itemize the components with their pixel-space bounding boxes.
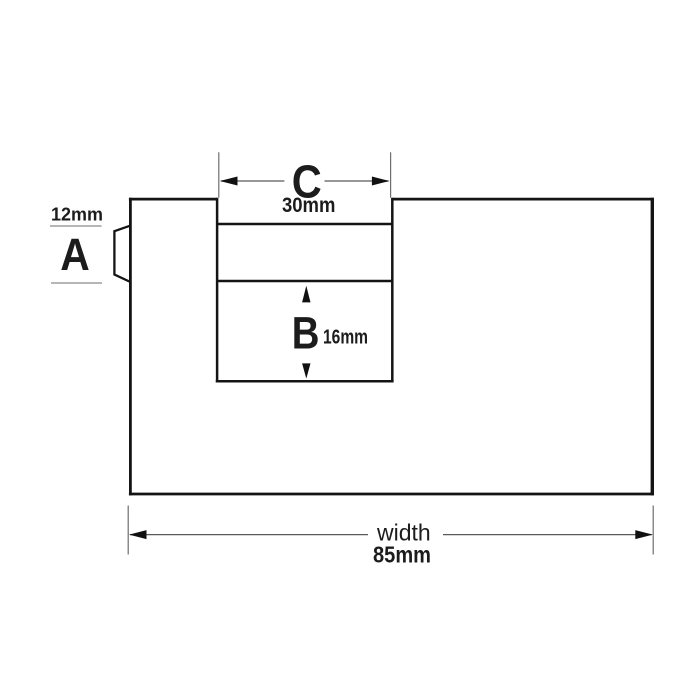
padlock body left edge	[129, 198, 132, 496]
dim width extension line left	[127, 506, 129, 555]
dim C arrowhead right	[372, 177, 390, 186]
svg-text:12mm: 12mm	[51, 204, 103, 225]
svg-text:30mm: 30mm	[282, 194, 335, 217]
dim C extension line right	[390, 152, 392, 197]
shackle notch left vertical	[216, 198, 219, 383]
padlock body outline (left top segment)	[129, 198, 217, 201]
shackle notch right vertical	[391, 198, 394, 383]
shackle notch bottom line	[216, 380, 394, 383]
svg-text:B: B	[292, 308, 320, 359]
dim B arrowhead down	[302, 363, 310, 378]
padlock body right edge	[651, 198, 654, 496]
dim C line right segment	[325, 180, 389, 182]
shackle bar bottom line	[217, 280, 392, 283]
dim C arrowhead left	[220, 177, 238, 186]
dim width extension line right	[652, 506, 654, 555]
dim C extension line left	[218, 152, 220, 197]
dim width line left segment	[130, 534, 368, 536]
shackle bar top line	[217, 223, 392, 226]
svg-text:85mm: 85mm	[373, 542, 431, 568]
svg-text:16mm: 16mm	[323, 327, 368, 349]
side tab trapezoid	[114, 226, 130, 282]
dim width line right segment	[443, 534, 652, 536]
svg-text:A: A	[60, 229, 90, 280]
padlock body outline (right top segment)	[392, 198, 654, 201]
padlock body bottom edge	[129, 493, 654, 496]
dim A lower line	[51, 282, 102, 284]
dim width arrowhead left	[129, 530, 147, 539]
dim width arrowhead right	[635, 530, 653, 539]
dim B arrowhead up	[302, 286, 310, 303]
dim C line left segment	[221, 180, 284, 182]
dim A upper line	[50, 225, 102, 227]
